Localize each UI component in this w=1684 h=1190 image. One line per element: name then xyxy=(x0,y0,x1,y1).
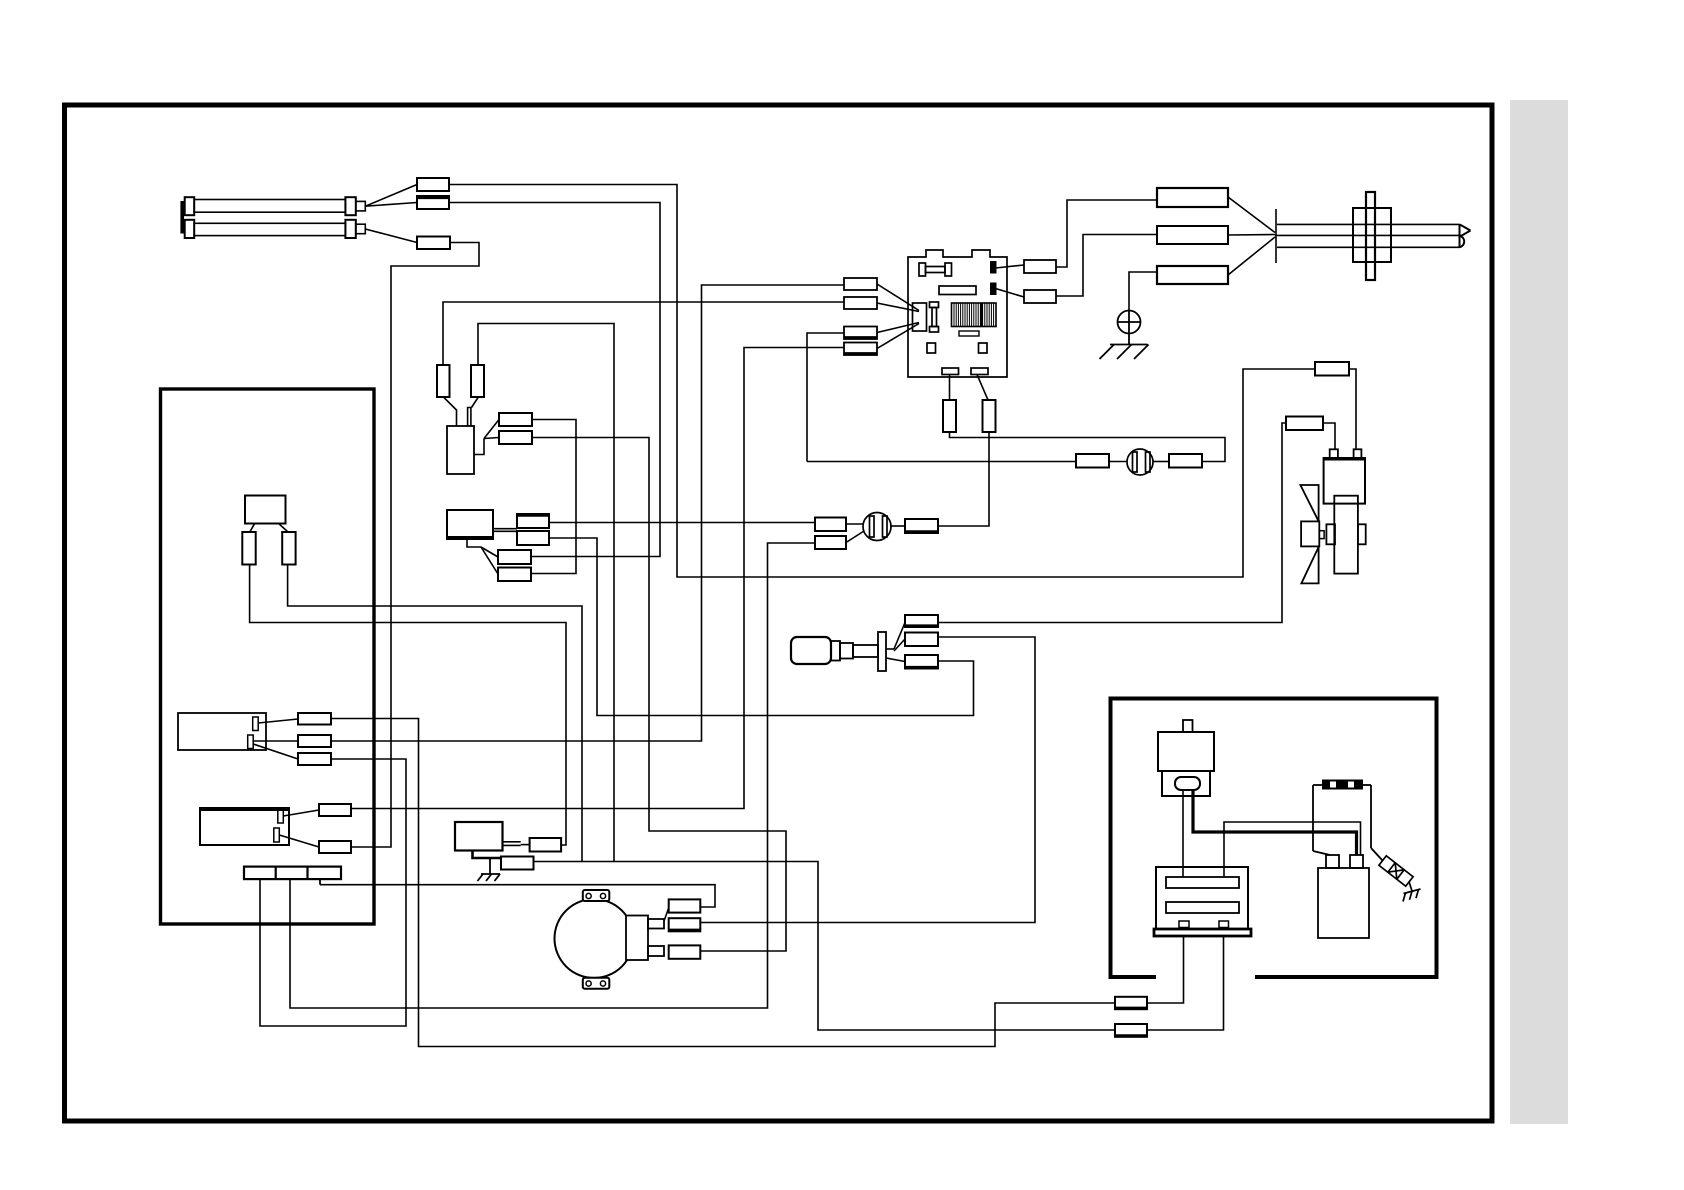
wire transformer slot1 to coil pin xyxy=(1224,822,1361,877)
temperature sensor TS1 xyxy=(791,632,886,671)
wire transformer R1 right lead xyxy=(1147,936,1184,1003)
wire limit switch leads xyxy=(279,810,319,847)
board mount square 1 xyxy=(927,343,936,353)
igniter glow plug GP1 xyxy=(1275,192,1471,280)
terminal lug M2 xyxy=(669,918,701,931)
terminal lug F2 (fan) xyxy=(1286,417,1323,431)
ignition transformer TR1 xyxy=(1154,867,1251,936)
terminal lug HR1 xyxy=(417,178,449,191)
wire gas valve bottom lead xyxy=(473,851,502,859)
wire spark electrode P1 to gas valve Q4 xyxy=(531,420,576,574)
terminal lug HR2 xyxy=(417,196,449,209)
wire flame rod left lead xyxy=(1182,790,1184,877)
terminal lug S3 xyxy=(905,655,938,669)
blower motor M1 xyxy=(555,890,669,989)
wire spark unit fuse leads xyxy=(444,398,478,427)
terminal lug P2 xyxy=(499,431,532,444)
fan blade lower xyxy=(1301,547,1318,583)
board connector housing xyxy=(913,303,927,331)
wire heater-lower to limit switch U2 xyxy=(351,243,479,848)
terminal lug S2 xyxy=(905,633,938,647)
terminal lug V2 xyxy=(501,857,534,870)
wire igniter terminal A to board upper connector xyxy=(1056,200,1157,267)
terminal lug A (igniter) xyxy=(1157,188,1228,207)
terminal lug M3 xyxy=(669,945,701,958)
capacitor C1 (circle) xyxy=(1127,449,1153,475)
relay RY1 in enclosure xyxy=(245,496,286,524)
limit switch TH2 xyxy=(200,808,289,845)
wire board pad leads xyxy=(950,375,989,401)
terminal lug C (igniter) xyxy=(1157,266,1228,284)
control board A1 xyxy=(908,250,1007,377)
ground earth symbol G1 xyxy=(1100,311,1149,360)
terminal lug S1 xyxy=(905,615,938,627)
wire spark electrode P2 to blower motor M3 xyxy=(532,438,786,952)
wire igniter terminal C to earth xyxy=(1129,272,1157,311)
heater element E1 xyxy=(182,197,365,238)
board mount square 2 xyxy=(979,343,988,353)
wire spark unit to board connector rect2 xyxy=(443,302,844,365)
terminal lug V1 xyxy=(530,838,562,852)
wire fan connector F1 right to fan pin xyxy=(1349,369,1356,449)
board small label rect xyxy=(959,331,979,336)
wire gas control link to Q1 Q2 xyxy=(467,529,517,574)
wire relay to fuse holders xyxy=(250,524,288,532)
spark unit fuse left xyxy=(437,365,450,397)
wire relay left pin to valve terminal V1 xyxy=(250,565,566,846)
gas valve GV1 xyxy=(455,822,503,851)
wire igniter lead fan-in xyxy=(1228,197,1275,275)
fan blade upper xyxy=(1300,485,1318,521)
wire strip cell2 to capacitor D2 xyxy=(290,543,815,1008)
inline connector left below board xyxy=(943,400,956,432)
wire spark unit right lead bridge to common net xyxy=(478,324,614,862)
control enclosure box xyxy=(161,389,375,924)
terminal lug U1 xyxy=(319,804,351,816)
fuse F1 on board xyxy=(919,263,952,276)
connector R1 (transformer lead) xyxy=(1115,997,1147,1009)
terminal lug rect1 (board harness) xyxy=(844,278,919,311)
IC label block on board xyxy=(952,303,997,327)
wire strip right cell to motor M1 xyxy=(320,885,715,907)
terminal lug T1 xyxy=(298,713,331,725)
wire thermostat T1 to transformer R1 xyxy=(331,719,1115,1047)
thermostat TH1 xyxy=(178,713,266,750)
capacitor C2 (circle) xyxy=(863,513,891,541)
wire thermostat leads xyxy=(253,719,298,759)
spark gap block SG1 xyxy=(1322,780,1363,790)
ground chassis symbol G2 xyxy=(478,858,501,881)
fan motor FM1 xyxy=(1301,449,1366,573)
wire coil to electrode xyxy=(1371,848,1383,861)
wire board pad right to capacitor D3 xyxy=(938,432,989,526)
wire gas valve Q1 to capacitor D1 xyxy=(549,522,815,524)
board pin tick 1 xyxy=(991,262,996,273)
spark electrode connector xyxy=(1379,856,1413,886)
wire heater-upper to fan motor connector (net 1) xyxy=(449,185,1315,578)
terminal lug Q1 xyxy=(517,514,549,528)
wire board connector rect3 to capacitor chain xyxy=(807,333,844,462)
board side connector lower xyxy=(996,289,1057,304)
wire spark block left lead xyxy=(1313,785,1330,855)
wire heater fan-out leads xyxy=(365,185,417,243)
board bottom pad 1 xyxy=(942,368,959,375)
wire sensor S1 to fan connector F2 xyxy=(938,423,1286,623)
wire valve V2 common to transformer R2 xyxy=(534,862,1116,1031)
board side connector upper xyxy=(996,260,1057,273)
board pin tick 2 xyxy=(991,284,996,295)
wire spark unit output step xyxy=(474,420,499,455)
wire flame rod right lead (thick) xyxy=(1193,790,1357,855)
ignition unit enclosure box xyxy=(1111,699,1437,978)
terminal lug T3 xyxy=(298,753,331,765)
fuse F2 vertical on board xyxy=(930,302,939,332)
wire transformer R2 right lead xyxy=(1147,936,1224,1030)
gas control GC1 xyxy=(447,510,493,539)
terminal lug Q4 xyxy=(498,568,531,582)
wire heater-upper to gas valve terminal Q3 xyxy=(449,203,660,557)
wire gas valve Q2 to sensor S3 xyxy=(549,538,974,716)
wire board pad left to capacitor loop top xyxy=(950,432,1226,462)
terminal strip TB1 xyxy=(244,867,341,885)
wire spark block right lead xyxy=(1363,785,1371,848)
wire thermostat T3 to strip cell1 xyxy=(260,759,406,1026)
terminal lug U2 xyxy=(319,841,351,853)
terminal lug Q3 xyxy=(498,550,531,564)
thermal fuse TF1 (chain1 left) xyxy=(1076,454,1109,468)
terminal lug rect4 (board harness) xyxy=(844,324,919,356)
wire chain2 inner links xyxy=(846,523,863,525)
terminal lug B (igniter) xyxy=(1157,226,1228,244)
wire capacitor chain1 inner links xyxy=(1109,461,1127,463)
wire board connector rect1 to thermostat T2 xyxy=(331,285,844,741)
wire sensor leads xyxy=(886,623,905,662)
terminal lug M1 xyxy=(669,899,701,912)
connector D1 (chain2) xyxy=(815,518,846,532)
terminal lug Q2 xyxy=(517,531,549,545)
connector D3 (chain2) xyxy=(905,519,938,533)
spark electrode tip xyxy=(1403,882,1421,902)
wire igniter terminal B to board lower connector xyxy=(1056,235,1157,297)
thermal fuse TF2 (chain1 right) xyxy=(1169,454,1202,468)
relay K1 on board xyxy=(939,286,976,295)
wire fan connector F2 right to fan pin xyxy=(1323,423,1335,449)
terminal lug F1 (fan) xyxy=(1315,362,1349,376)
wire relay right pin to common net xyxy=(288,565,582,862)
ignition coil IC1 xyxy=(1318,855,1369,938)
terminal lug rect3 (board harness) xyxy=(844,323,919,340)
spark unit fuse right xyxy=(471,365,484,397)
board bottom pad 2 xyxy=(971,368,988,375)
wire capacitor chain1 left link xyxy=(807,461,1076,463)
inline connector right below board xyxy=(983,400,996,432)
terminal lug P1 xyxy=(499,413,532,426)
wire board connector rect4 to limit switch U1 xyxy=(351,348,844,809)
wire gas valve stub to V1 xyxy=(503,842,530,846)
wire motor M2 to sensor S2 xyxy=(700,637,1035,923)
fuse holder right xyxy=(282,532,295,565)
terminal lug rect2 (board harness) xyxy=(844,297,919,312)
connector D2 (chain2) xyxy=(815,531,864,549)
spark unit body xyxy=(447,426,474,474)
connector R2 (transformer lead) xyxy=(1115,1024,1147,1037)
flame rod FR1 xyxy=(1158,720,1214,796)
terminal lug T2 xyxy=(298,735,331,747)
terminal lug HR3 xyxy=(417,237,450,250)
fuse holder left xyxy=(242,532,255,565)
